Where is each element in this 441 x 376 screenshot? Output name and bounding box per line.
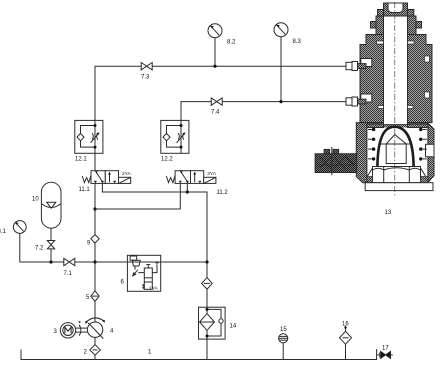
port notch upper (361, 59, 372, 67)
check valve 9 (91, 235, 99, 243)
svg-text:7.4: 7.4 (211, 110, 220, 116)
base plate (365, 183, 433, 191)
wire gauge 8.3 stem (280, 37, 282, 102)
svg-text:17: 17 (382, 345, 389, 351)
gauge 8.3 (274, 23, 288, 37)
svg-text:2: 2 (84, 350, 88, 356)
solenoid valve 11.1 (82, 171, 131, 184)
node junction x95-y262 (93, 260, 96, 263)
check valve 5 (91, 291, 99, 302)
svg-text:16: 16 (342, 322, 349, 328)
svg-text:7.1: 7.1 (64, 271, 73, 277)
hex nut (373, 167, 421, 183)
svg-text:10: 10 (32, 197, 39, 203)
rod white column (384, 16, 408, 124)
cylinder main body upper left (360, 35, 384, 123)
node junction x207-y262 (205, 260, 208, 263)
relief valve unit 6 (127, 255, 160, 291)
svg-text:5: 5 (86, 295, 90, 301)
poppet dome (377, 127, 413, 166)
accumulator 10 (41, 182, 61, 228)
svg-text:11.1: 11.1 (79, 187, 91, 193)
wire main pressure riser x95 (94, 183, 96, 322)
centerline (394, 2, 396, 197)
throttle-check valve 12.1 (75, 120, 103, 153)
svg-text:3: 3 (54, 329, 58, 335)
svg-text:8.1: 8.1 (0, 229, 7, 235)
wire tank line (21, 349, 377, 359)
motor 3 (60, 323, 75, 338)
gauge 8.2 (208, 24, 222, 38)
wire item 16 stem (345, 344, 347, 360)
cylinder gland right (408, 16, 417, 35)
mount pin (331, 147, 333, 175)
valve 7.4 (211, 98, 222, 105)
cap ears (378, 10, 384, 17)
svg-text:1YA: 1YA (149, 286, 159, 292)
solenoid valve 11.2 (166, 171, 216, 184)
wire branch y209 to valve 11.2 (95, 183, 180, 209)
wire line B to cylinder lower port (181, 102, 346, 121)
svg-text:3YA: 3YA (207, 171, 217, 177)
cylinder gland left (376, 16, 384, 35)
svg-text:14: 14 (230, 324, 237, 330)
svg-text:11.2: 11.2 (217, 190, 229, 196)
cavity top strips (367, 124, 384, 128)
hydraulic cylinder 13 (315, 2, 434, 197)
cylinder main body upper right (408, 35, 433, 123)
node junction x95-y209 (93, 207, 96, 210)
right side notch (426, 144, 435, 157)
svg-text:12.1: 12.1 (75, 157, 87, 163)
svg-text:2YA: 2YA (122, 171, 132, 177)
gauge 8.1 (13, 221, 26, 234)
svg-text:13: 13 (385, 210, 392, 216)
spring left (372, 128, 375, 161)
node junction B-8.3 (279, 100, 282, 103)
svg-text:7.3: 7.3 (141, 75, 150, 81)
svg-text:4: 4 (110, 329, 114, 335)
port fitting upper (346, 62, 366, 71)
seal groove slits (377, 41, 384, 44)
cavity corner blocks (367, 177, 373, 183)
svg-text:7.2: 7.2 (35, 246, 44, 252)
wire filter 14 outlet (206, 339, 208, 359)
dome inner structure (381, 143, 410, 145)
coupling (76, 321, 88, 336)
wire pump suction (94, 338, 96, 360)
check valve above filter (202, 278, 213, 290)
valve 17 (381, 351, 391, 358)
strainer 2 (90, 345, 101, 355)
svg-text:15: 15 (280, 327, 287, 333)
node junction accumulator-y262 (49, 260, 52, 263)
pump 4 (85, 318, 105, 339)
port notch lower (361, 94, 372, 102)
wire pressure line y262 (20, 234, 207, 263)
gland screws (371, 22, 377, 29)
rod cap (384, 3, 408, 16)
spring right (419, 128, 422, 161)
port fitting lower (346, 97, 366, 106)
svg-text:9: 9 (87, 241, 91, 247)
cylinder cavity white (367, 128, 428, 183)
air filter 16 (340, 325, 352, 344)
node junction 187-y192 (186, 190, 189, 193)
valve 7.1 (64, 258, 75, 265)
left mount block (315, 154, 357, 173)
svg-text:12.2: 12.2 (161, 157, 173, 163)
valve 7.2 (47, 241, 54, 249)
wire 12.1 to 11.1 (94, 153, 96, 170)
wire item 15 stem (282, 343, 284, 360)
throttle-check valve 12.2 (161, 120, 189, 153)
wire gauge 8.2 stem (214, 38, 216, 66)
svg-text:8.3: 8.3 (293, 39, 302, 45)
valve 7.3 (141, 63, 152, 70)
wire tank return y192 (102, 183, 207, 307)
svg-text:8.2: 8.2 (227, 40, 236, 46)
svg-text:6: 6 (121, 280, 125, 286)
filter 14 (199, 307, 226, 339)
wire accumulator stem (50, 228, 52, 262)
svg-text:1: 1 (148, 350, 152, 356)
level gauge 15 (279, 334, 288, 343)
node junction A-8.2 (213, 65, 216, 68)
cylinder lower body (356, 123, 434, 183)
wire 11.2 drop to y192 (186, 183, 188, 192)
wire line A to cylinder upper port (95, 66, 346, 120)
skirt wedges (368, 168, 426, 176)
wire drain valve 17 branch (377, 354, 381, 356)
